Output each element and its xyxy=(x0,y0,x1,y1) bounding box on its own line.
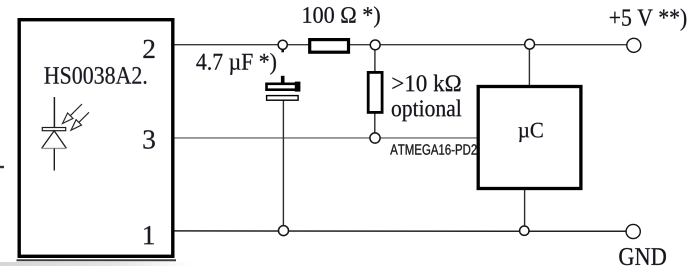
resistor R2 >10k pull-up xyxy=(368,72,382,112)
bottom page-edge artifact shadow xyxy=(0,260,192,266)
label uC xyxy=(518,123,542,142)
resistor R1 100 ohm xyxy=(310,40,349,53)
label >10 kOhm xyxy=(392,75,460,92)
pin 3 label xyxy=(143,130,154,148)
label optional xyxy=(392,100,462,122)
wire R2 top lead from node to resistor xyxy=(374,45,376,72)
wire pin3 to uC PD2 (net PD2) xyxy=(174,137,477,139)
wire pin2 to +5V rail (net VCC top) xyxy=(174,44,627,46)
terminal +5V xyxy=(627,38,641,52)
pin 2 label xyxy=(143,40,154,58)
junction node: uC / GND rail xyxy=(520,226,529,235)
wire R2 bottom lead from resistor to pin3 node xyxy=(374,113,376,138)
label GND xyxy=(619,248,666,265)
photodiode D1 xyxy=(42,97,67,171)
label +5 V **) xyxy=(610,9,686,31)
junction node: C1 / GND rail xyxy=(279,226,289,236)
microcontroller box U1 uC xyxy=(478,87,581,189)
wire capacitor C1 lead down to GND rail xyxy=(282,98,284,231)
label HS0038A2. xyxy=(44,67,146,84)
junction node: pin2 / C1 xyxy=(278,40,287,52)
junction node: R1 / R2 / +5V xyxy=(370,40,380,50)
wire pin1 to GND rail (net GND) xyxy=(174,230,627,232)
label ATMEGA16-PD2 xyxy=(390,144,476,154)
junction node: +5V / uC xyxy=(525,39,535,49)
pin 1 label xyxy=(144,226,154,244)
capacitor C1 4.7uF electrolytic xyxy=(267,76,301,100)
terminal GND xyxy=(626,224,640,238)
label 4.7 uF *) xyxy=(196,53,276,75)
junction node: R2 / pin3 xyxy=(370,133,380,143)
label 100 ohm *) xyxy=(303,6,379,27)
light arrows into photodiode D1 xyxy=(63,104,90,130)
left page-edge artifact dash xyxy=(0,166,4,168)
wire +5V rail down to uC U1 top xyxy=(528,45,530,87)
wire uC U1 bottom down to GND rail xyxy=(524,189,526,231)
IC box HS0038A2 xyxy=(19,20,173,257)
